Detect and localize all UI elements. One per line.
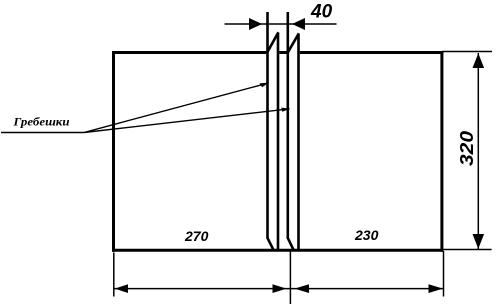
svg-text:230: 230: [354, 227, 379, 243]
svg-text:320: 320: [457, 131, 477, 166]
svg-text:40: 40: [310, 2, 333, 23]
svg-text:270: 270: [184, 228, 209, 244]
svg-text:Гребешки: Гребешки: [12, 114, 69, 128]
